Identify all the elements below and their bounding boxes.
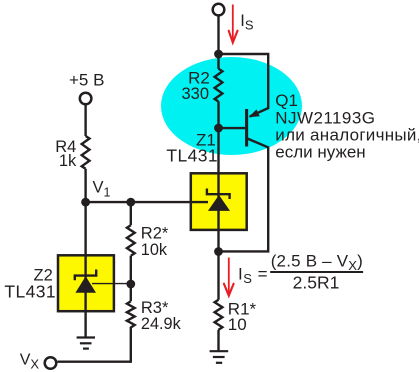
svg-text:TL431: TL431: [166, 146, 218, 166]
svg-text:R2*: R2*: [141, 225, 169, 243]
svg-text:2.5R1: 2.5R1: [293, 272, 340, 292]
svg-text:330: 330: [181, 85, 209, 103]
svg-text:10k: 10k: [141, 241, 168, 259]
svg-text:R3*: R3*: [141, 299, 169, 317]
svg-text:IS =: IS =: [238, 265, 268, 287]
svg-text:24.9k: 24.9k: [141, 315, 182, 333]
svg-text:V1: V1: [93, 178, 111, 199]
svg-text:IS: IS: [240, 12, 254, 33]
svg-text:VX: VX: [20, 351, 40, 371]
svg-text:10: 10: [228, 315, 247, 334]
svg-text:1k: 1k: [59, 152, 77, 170]
svg-text:+5 В: +5 В: [69, 71, 104, 90]
svg-text:TL431: TL431: [4, 282, 56, 302]
svg-text:Q1: Q1: [275, 91, 298, 110]
svg-text:если нужен: если нужен: [275, 143, 365, 162]
svg-text:(2.5 В – VX): (2.5 В – VX): [271, 252, 363, 273]
